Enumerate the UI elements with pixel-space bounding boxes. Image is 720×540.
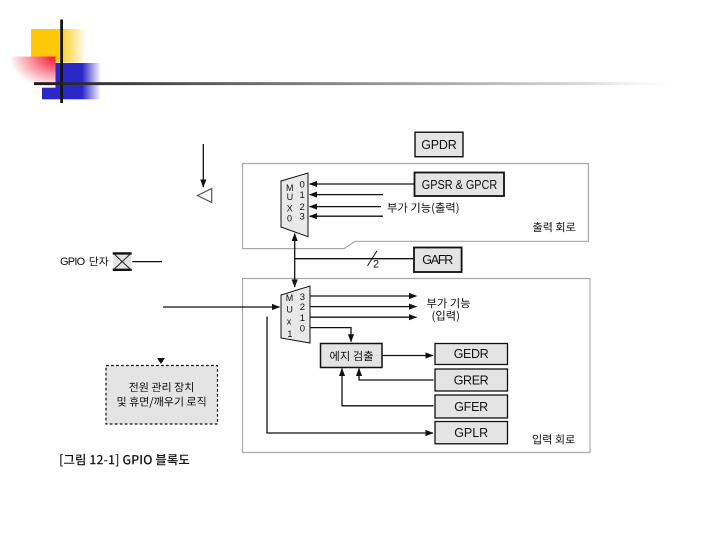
slide accent yellow square [31,29,86,63]
mux MUX1 [281,286,310,343]
wire from GPIO pad [132,261,162,263]
svg-text:0: 0 [300,323,305,334]
slide accent vertical bar [60,20,63,104]
svg-text:GEDR: GEDR [454,347,489,361]
register box GFER [435,395,508,418]
wire pad line into MUX1 [163,306,280,308]
register box GRER [435,369,508,391]
svg-text:U: U [287,192,294,202]
svg-text:GPLR: GPLR [454,426,488,440]
bus width slash /2 [368,251,380,271]
wire alt function to MUX0 input 1 [310,194,384,196]
svg-text:GPSR & GPCR: GPSR & GPCR [422,178,498,192]
label 입력 회로 [533,434,575,444]
svg-text:U: U [286,305,293,315]
wire GRER to edge detect [359,369,434,381]
svg-text:1: 1 [287,329,292,339]
svg-text:1: 1 [300,190,305,201]
edge detect box 에지 검출 [321,344,383,368]
register box GPDR [415,132,463,157]
svg-text:M: M [286,293,294,303]
output circuit frame box [243,164,589,249]
register box GPSR & GPCR [415,173,505,197]
slide accent blue square [42,63,101,99]
svg-text:GPIO: GPIO [60,256,86,268]
svg-text:GAFR: GAFR [422,253,453,267]
register box GAFR [414,248,462,273]
svg-text:GFER: GFER [454,400,488,414]
wire alt function to MUX0 input 2 [310,206,382,208]
svg-text:3: 3 [300,212,305,223]
wire GFER to edge detect [342,369,434,406]
wire MUX1 output 1 to alt function [310,316,417,318]
wire MUX1 output 3 to alt function [310,295,417,297]
wire MUX1 output 0 to edge detect [310,328,351,342]
power management dashed box [106,366,218,425]
input circuit frame box [243,279,591,453]
wire edge detect to GEDR [382,355,433,357]
svg-text:2: 2 [373,259,379,271]
wire alt function to MUX0 input 3 [310,215,384,217]
wire into output buffer (vertical arrow) [202,144,204,187]
mux MUX0 [281,173,308,237]
wire MUX1 output 2 to alt function [310,306,417,308]
svg-text:X: X [287,203,293,213]
register box GPLR [435,422,508,444]
slide accent red square [10,57,56,88]
arrowhead into power management box [157,358,165,364]
label 출력 회로 [533,222,575,232]
svg-text:x: x [287,317,292,327]
svg-text:2: 2 [300,302,305,313]
register box GEDR [435,344,508,365]
svg-text:0: 0 [287,213,292,223]
label GPIO 단자 [60,256,108,268]
svg-text:GPDR: GPDR [421,138,457,152]
GPIO pad symbol [113,253,132,271]
svg-text:1: 1 [300,313,305,324]
caption [그림 12-1] GPIO 블록도 [60,454,189,467]
svg-text:0: 0 [300,180,305,191]
wire MUX0/MUX1 vertical bus (double arrow) [294,234,296,288]
wire GPSR&GPCR to MUX0 input 0 [310,183,415,185]
label 부가 기능 (입력) [427,298,470,322]
label 부가 기능(출력) [388,202,459,214]
wire bus to GAFR [295,258,414,260]
wire pad branch to GPLR [267,317,433,434]
svg-text:GRER: GRER [454,374,489,388]
output buffer triangle [198,189,212,203]
slide accent horizontal rule [34,82,680,85]
